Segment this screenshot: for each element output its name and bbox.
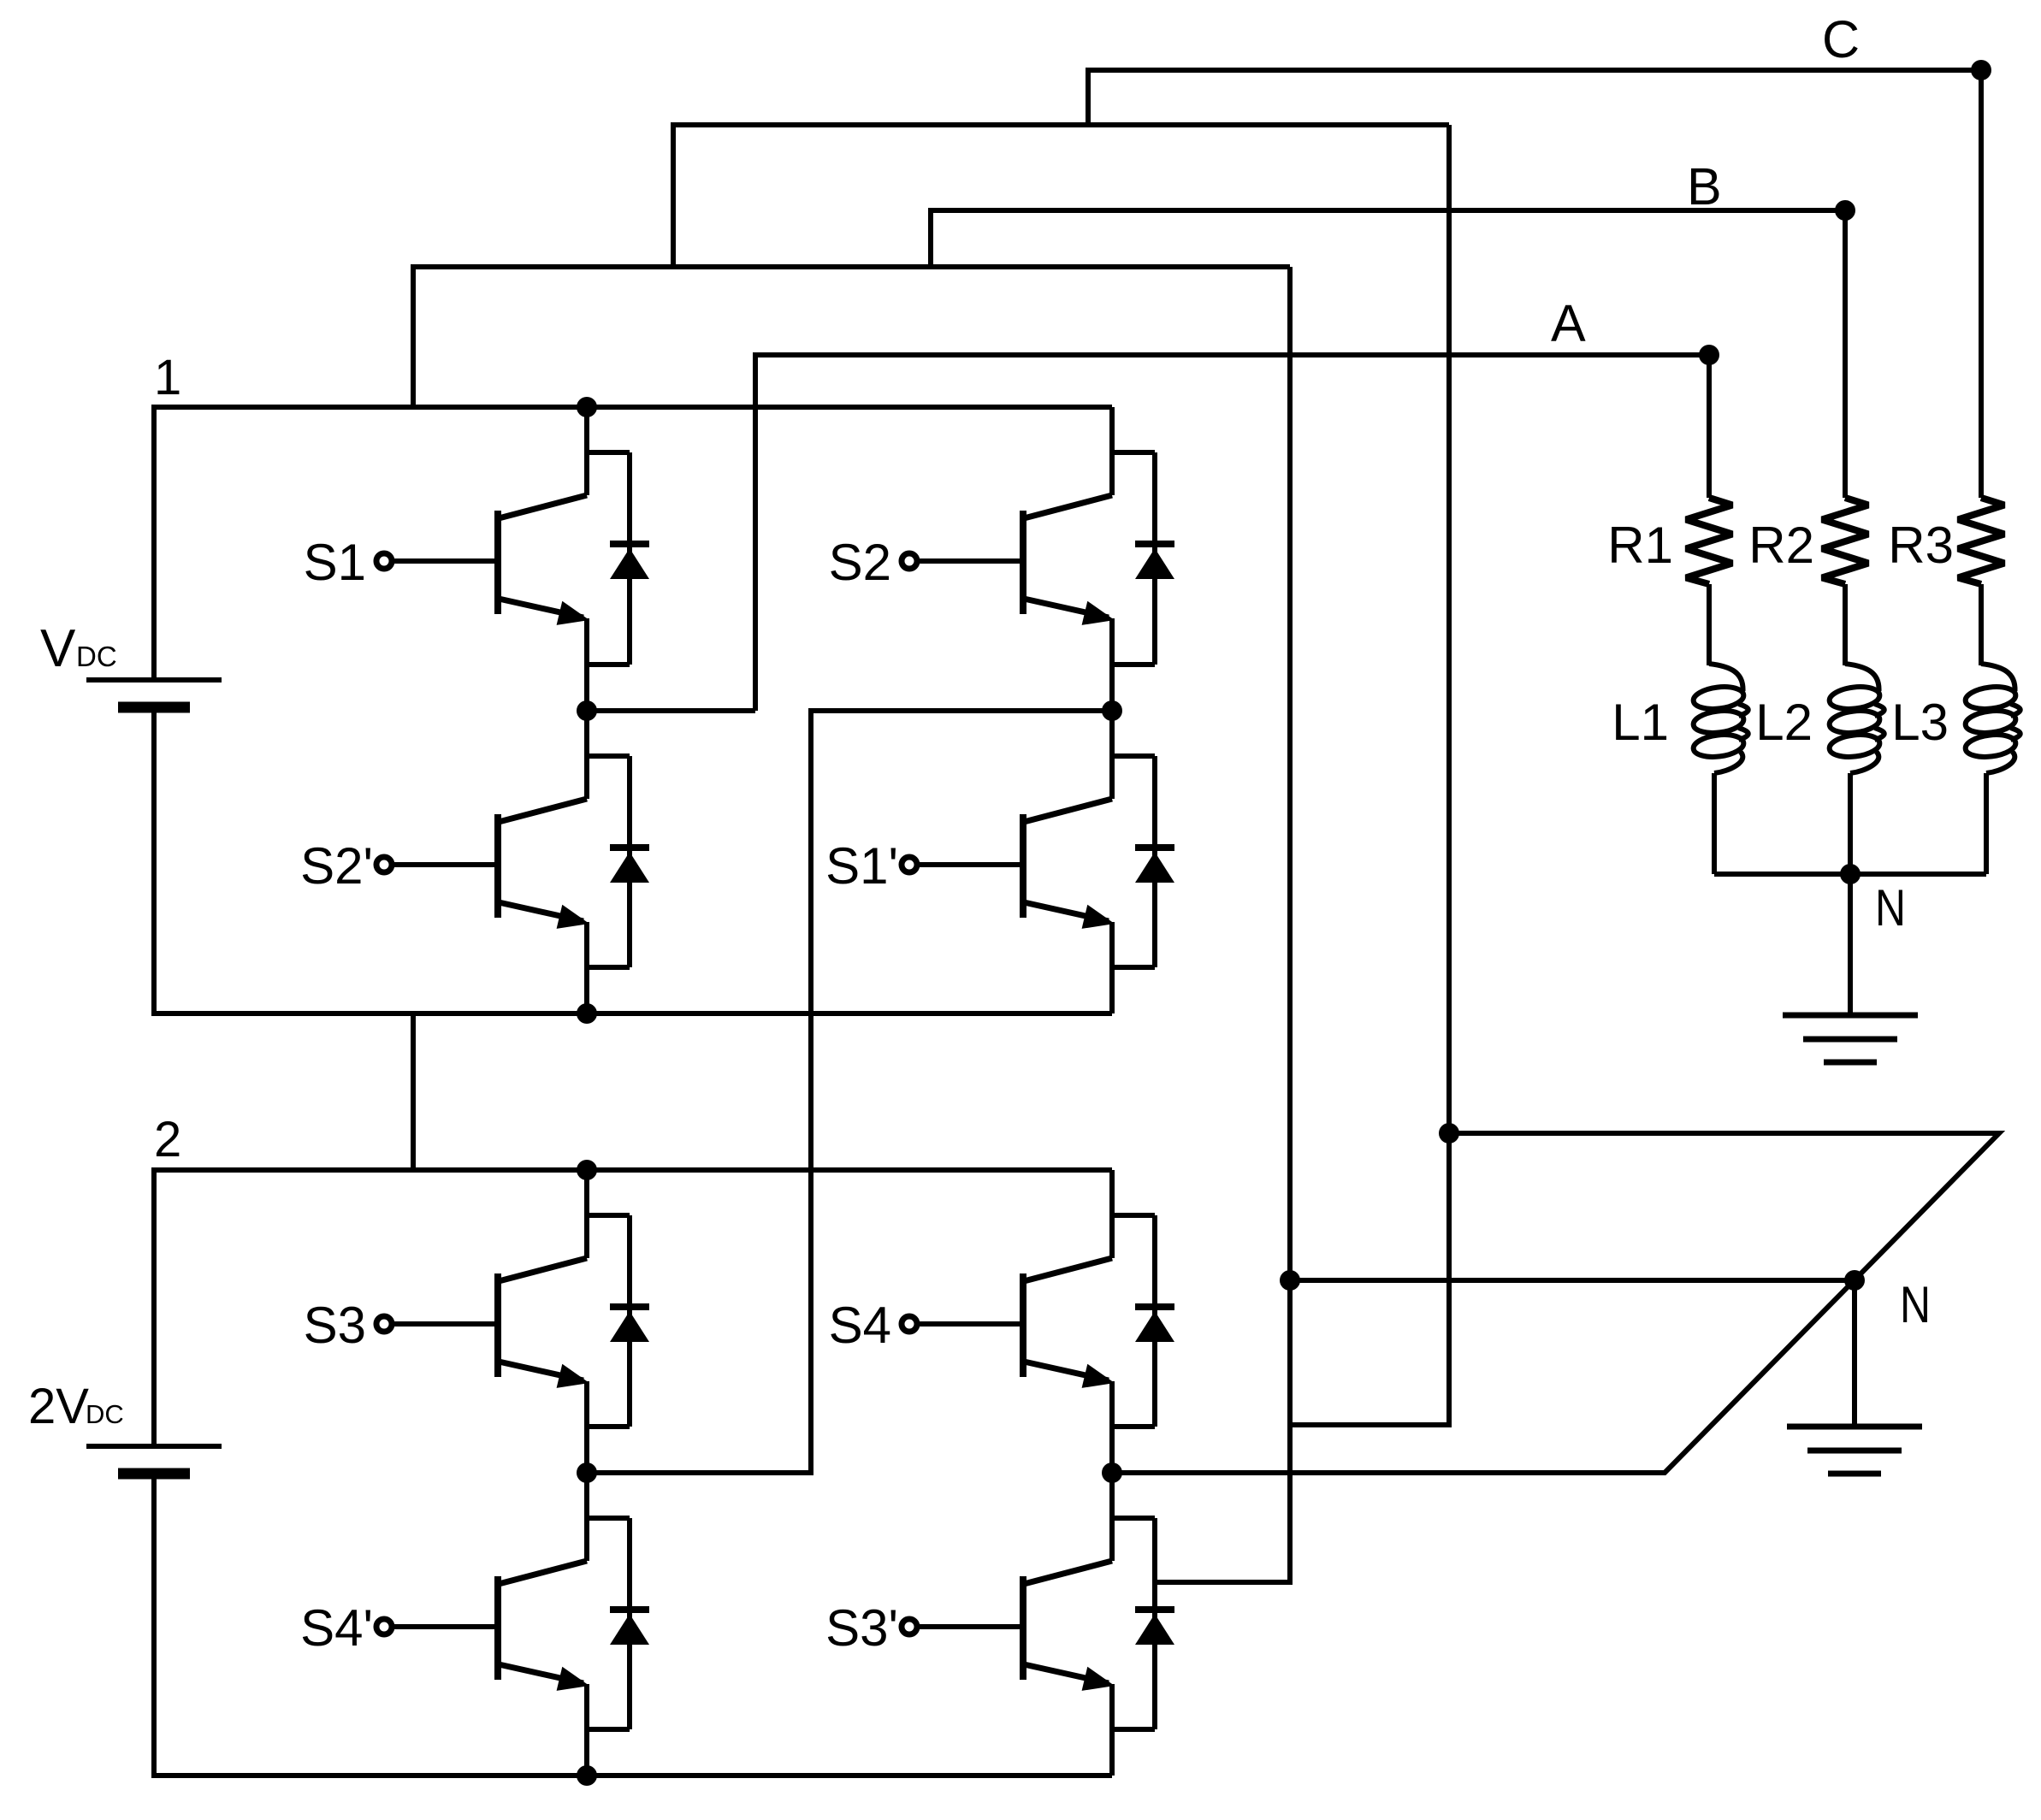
svg-text:N: N bbox=[1900, 1276, 1931, 1333]
label N2 bbox=[1900, 1276, 1931, 1333]
diode of S2p bbox=[587, 756, 649, 967]
label S4p bbox=[300, 1599, 373, 1657]
inductor L2 bbox=[1828, 664, 1884, 773]
svg-text:A: A bbox=[1551, 294, 1586, 352]
node cell1 bottom bbox=[577, 1003, 597, 1024]
transistor S1 bbox=[376, 407, 589, 711]
wire plane parallelogram bbox=[1112, 1133, 1999, 1473]
svg-text:R2: R2 bbox=[1748, 517, 1814, 574]
svg-text:S1: S1 bbox=[304, 534, 366, 591]
node cell2 bottom bbox=[577, 1765, 597, 1786]
wire R2-L2 lead bbox=[1843, 584, 1848, 665]
wire N2 ground lead bbox=[1852, 1280, 1857, 1427]
svg-text:L3: L3 bbox=[1891, 694, 1949, 751]
svg-text:V: V bbox=[40, 619, 76, 678]
svg-text:1: 1 bbox=[154, 350, 181, 405]
node cell1 top bbox=[577, 397, 597, 417]
diode of S1p bbox=[1112, 756, 1174, 967]
svg-text:B: B bbox=[1687, 157, 1722, 216]
node mid2 right bbox=[1102, 1462, 1122, 1483]
wire neutral2 horizontal bbox=[1290, 1278, 1855, 1283]
wire L1 bottom lead bbox=[1712, 773, 1717, 874]
resistor R3 bbox=[1958, 498, 2004, 584]
label V1 bbox=[40, 619, 117, 678]
node N2 bbox=[1844, 1270, 1865, 1291]
wire L2 bottom lead bbox=[1848, 773, 1853, 874]
node C bbox=[1971, 60, 1991, 80]
label N1 bbox=[1875, 879, 1906, 937]
svg-text:S3': S3' bbox=[825, 1599, 898, 1657]
node cell2 top bbox=[577, 1160, 597, 1180]
wire neutral bus bbox=[1714, 872, 1986, 877]
label R2 bbox=[1748, 517, 1814, 574]
battery V1 bbox=[86, 680, 222, 707]
wire C load lead bbox=[1979, 70, 1984, 498]
diode of S3p bbox=[1112, 1518, 1174, 1729]
label S2 bbox=[829, 534, 891, 591]
inductor L3 bbox=[1964, 664, 2020, 773]
wire cell2 top rail bbox=[154, 1170, 1112, 1446]
label R3 bbox=[1888, 517, 1954, 574]
transistor S2p bbox=[376, 711, 589, 1013]
diode of S3 bbox=[587, 1215, 649, 1427]
svg-text:S2: S2 bbox=[829, 534, 891, 591]
resistor R1 bbox=[1686, 498, 1732, 584]
label L1 bbox=[1612, 694, 1669, 751]
wire cascade mid1-mid2 bbox=[587, 711, 1112, 1473]
node B bbox=[1835, 200, 1855, 221]
node A bbox=[1699, 345, 1719, 365]
ground N1 bbox=[1783, 1015, 1918, 1062]
label R1 bbox=[1607, 517, 1673, 574]
label S1p bbox=[825, 837, 898, 895]
svg-text:2V: 2V bbox=[28, 1379, 89, 1434]
wire phase B horizontal bbox=[931, 210, 1845, 267]
wire A load lead bbox=[1707, 355, 1712, 498]
wire phase C horizontal bbox=[1088, 70, 1981, 125]
node mid2 left bbox=[577, 1462, 597, 1483]
diode of S4p bbox=[587, 1518, 649, 1729]
wire phase A horizontal bbox=[755, 355, 1709, 711]
wire mid1 left to A drop bbox=[587, 708, 755, 713]
transistor S4 bbox=[902, 1170, 1115, 1473]
transistor S2 bbox=[902, 407, 1115, 711]
label L3 bbox=[1891, 694, 1949, 751]
node N1 bbox=[1840, 864, 1861, 884]
wire R3-L3 lead bbox=[1979, 584, 1984, 665]
node B net tap bbox=[1280, 1270, 1300, 1291]
wire cell1 bottom rail bbox=[154, 707, 1112, 1013]
battery V2 bbox=[86, 1446, 222, 1474]
svg-text:DC: DC bbox=[76, 641, 117, 672]
svg-text:2: 2 bbox=[154, 1112, 181, 1167]
transistor S4p bbox=[376, 1473, 589, 1776]
resistor R2 bbox=[1822, 498, 1868, 584]
svg-text:DC: DC bbox=[86, 1399, 124, 1429]
svg-text:L1: L1 bbox=[1612, 694, 1669, 751]
label C bbox=[1822, 10, 1860, 68]
inductor L1 bbox=[1692, 664, 1748, 773]
svg-text:R3: R3 bbox=[1888, 517, 1954, 574]
label S1 bbox=[304, 534, 366, 591]
wire N1 ground lead bbox=[1848, 874, 1853, 1015]
label A bbox=[1551, 294, 1586, 352]
transistor S3 bbox=[376, 1170, 589, 1473]
wire bus y312 bbox=[413, 267, 1290, 407]
svg-text:N: N bbox=[1875, 879, 1906, 937]
wire B net vertical x1508 bbox=[1155, 267, 1290, 1582]
label V2 bbox=[28, 1379, 124, 1434]
diode of S1 bbox=[587, 452, 649, 665]
svg-text:S2': S2' bbox=[300, 837, 373, 895]
wire cell1 top rail bbox=[154, 407, 1112, 680]
wire bus y146 bbox=[673, 125, 1449, 267]
wire cell2 bottom rail bbox=[154, 1474, 1112, 1776]
transistor S1p bbox=[902, 711, 1115, 1013]
label S3p bbox=[825, 1599, 898, 1657]
svg-text:S4: S4 bbox=[829, 1297, 891, 1354]
diode of S2 bbox=[1112, 452, 1174, 665]
ground N2 bbox=[1787, 1427, 1922, 1474]
wire C net vertical x1694 bbox=[1290, 125, 1449, 1425]
node mid1 right bbox=[1102, 700, 1122, 721]
wire L3 bottom lead bbox=[1984, 773, 1989, 874]
svg-text:L2: L2 bbox=[1755, 694, 1813, 751]
label L2 bbox=[1755, 694, 1813, 751]
node parallelogram top left bbox=[1439, 1123, 1459, 1143]
label cell 2 bbox=[154, 1112, 181, 1167]
wire bus link x483 lower bbox=[411, 1013, 416, 1170]
node mid1 left bbox=[577, 700, 597, 721]
transistor S3p bbox=[902, 1473, 1115, 1776]
svg-text:S3: S3 bbox=[304, 1297, 366, 1354]
wire B load lead bbox=[1843, 210, 1848, 498]
svg-text:S4': S4' bbox=[300, 1599, 373, 1657]
diode of S4 bbox=[1112, 1215, 1174, 1427]
label B bbox=[1687, 157, 1722, 216]
svg-text:S1': S1' bbox=[825, 837, 898, 895]
label S4 bbox=[829, 1297, 891, 1354]
label S3 bbox=[304, 1297, 366, 1354]
label cell 1 bbox=[154, 350, 181, 405]
label S2p bbox=[300, 837, 373, 895]
svg-text:C: C bbox=[1822, 10, 1860, 68]
wire R1-L1 lead bbox=[1707, 584, 1712, 665]
svg-text:R1: R1 bbox=[1607, 517, 1673, 574]
